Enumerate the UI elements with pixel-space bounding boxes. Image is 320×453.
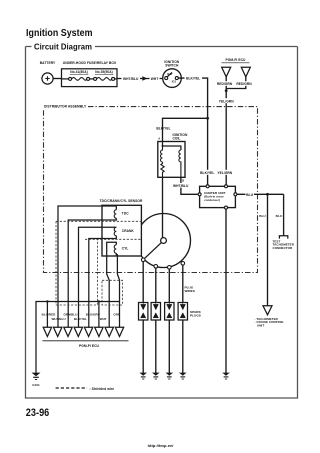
svg-text:23-96: 23-96 xyxy=(26,407,50,419)
TDC sensor coil xyxy=(114,210,129,218)
svg-text:http://tmp.ee/: http://tmp.ee/ xyxy=(148,443,175,448)
section title Circuit Diagram with bracket xyxy=(26,43,298,52)
svg-text:YEL/GRN: YEL/GRN xyxy=(219,99,234,103)
legend shielded wire xyxy=(56,387,115,391)
spark plug wire 4 xyxy=(182,265,184,373)
wire WHT/BLU coil to igniter xyxy=(173,177,200,194)
coil secondary winding xyxy=(179,150,181,177)
ECU wire color labels row 1 xyxy=(42,313,121,317)
rotor xyxy=(145,243,162,259)
svg-text:BLU/YEL: BLU/YEL xyxy=(74,317,87,321)
svg-text:SWITCH: SWITCH xyxy=(165,63,179,67)
svg-text:BLU: BLU xyxy=(259,214,266,218)
svg-text:WIRES: WIRES xyxy=(185,289,195,293)
svg-text:Ignition System: Ignition System xyxy=(26,28,93,39)
CRANK sensor coil xyxy=(114,227,134,235)
ignition switch xyxy=(163,60,182,87)
ECU wire color labels row 2 xyxy=(52,317,107,321)
under-hood fuse/relay box xyxy=(62,61,118,86)
svg-text:YEL/GRN: YEL/GRN xyxy=(217,171,232,175)
svg-text:WHT: WHT xyxy=(151,77,159,81)
svg-text:BLK/YEL: BLK/YEL xyxy=(156,127,170,131)
wire battery to fuse box xyxy=(53,78,61,80)
sensor wire TDC-b xyxy=(68,218,116,327)
shield dashed box B xyxy=(102,280,123,305)
PGM-FI ECU bottom connector row: 8 triangles xyxy=(43,327,129,348)
TDC/CRANK/CYL sensor box xyxy=(100,199,143,256)
svg-text:BLK/YEL: BLK/YEL xyxy=(186,77,200,81)
plug wires label xyxy=(185,286,195,293)
fuse No.41 (80A) xyxy=(62,70,90,80)
svg-text:PGM-FI ECU: PGM-FI ECU xyxy=(226,58,246,62)
svg-text:Circuit Diagram: Circuit Diagram xyxy=(34,43,92,52)
svg-text:WHT/BLU: WHT/BLU xyxy=(123,77,139,81)
watermark xyxy=(148,443,175,448)
svg-text:BATTERY: BATTERY xyxy=(40,61,56,65)
svg-text:BLU: BLU xyxy=(246,193,253,197)
svg-text:GRN: GRN xyxy=(113,313,120,317)
distributor assembly dashed box xyxy=(44,105,258,273)
svg-text:WHT/BLU: WHT/BLU xyxy=(52,317,66,321)
svg-text:B: B xyxy=(182,178,184,182)
engine ground under plug 4 xyxy=(179,373,187,379)
shield dash row 1 xyxy=(56,220,141,222)
coil primary winding xyxy=(161,146,163,162)
svg-text:RED/GRN: RED/GRN xyxy=(217,82,233,86)
high tension wire coil to distributor xyxy=(162,177,164,237)
engine ground under plug 1 xyxy=(139,373,147,379)
spark plug 4 xyxy=(178,303,187,321)
svg-text:RED/GRN: RED/GRN xyxy=(236,82,252,86)
svg-text:BLU: BLU xyxy=(276,214,283,218)
svg-text:WHT/BLU: WHT/BLU xyxy=(173,184,189,188)
svg-text:ORN/BLU: ORN/BLU xyxy=(63,313,77,317)
PGM-FI ECU top connectors xyxy=(216,58,254,92)
svg-text:BAT: BAT xyxy=(167,72,173,76)
svg-text:CRANK: CRANK xyxy=(122,229,135,233)
wire WHT/BLU with inline connector arrow and WHT label xyxy=(117,76,163,81)
svg-text:A: A xyxy=(158,137,160,141)
svg-text:condenser): condenser) xyxy=(204,198,220,202)
fuse No.39 (50A) xyxy=(90,70,117,80)
wire BLU igniter output xyxy=(237,192,284,197)
sensor wire CYL-a xyxy=(107,242,117,327)
sensor wire CRANK-b xyxy=(89,236,117,328)
battery xyxy=(40,61,56,84)
svg-text:BLU/RED: BLU/RED xyxy=(42,313,56,317)
svg-text:UNIT: UNIT xyxy=(257,323,264,327)
svg-text:BLU/GRN: BLU/GRN xyxy=(86,313,100,317)
frame border xyxy=(26,47,298,399)
engine ground under plug 3 xyxy=(166,373,174,379)
wire BLU to tachometer/cruise xyxy=(259,194,267,305)
svg-text:WHT: WHT xyxy=(100,317,107,321)
svg-text:No.41(80A): No.41(80A) xyxy=(70,70,87,74)
svg-text:TDC/CRANK/CYL SENSOR: TDC/CRANK/CYL SENSOR xyxy=(100,199,143,203)
shield ground bus xyxy=(36,302,120,374)
wire YEL/GRN ECU to igniter xyxy=(218,91,236,187)
svg-text:CYL: CYL xyxy=(122,246,129,250)
engine ground under plug 2 xyxy=(152,373,160,379)
distributor xyxy=(137,214,191,270)
spark plug 2 xyxy=(151,303,160,321)
page title xyxy=(26,28,93,39)
cap contacts xyxy=(141,258,145,262)
svg-text:CONNECTOR: CONNECTOR xyxy=(273,246,294,250)
svg-text:No.39(50A): No.39(50A) xyxy=(95,70,112,74)
ECU wire 1 from bus xyxy=(46,300,48,327)
svg-text:PGM-FI ECU: PGM-FI ECU xyxy=(79,344,99,348)
spark plug 1 xyxy=(139,303,148,321)
svg-text:PLUGS: PLUGS xyxy=(190,313,201,317)
tachometer / cruise control unit connector xyxy=(255,306,285,328)
spark plugs label xyxy=(190,310,202,317)
sensor wire TDC-a xyxy=(58,206,116,327)
svg-text:BLK/YEL: BLK/YEL xyxy=(200,171,214,175)
ignition coil xyxy=(156,127,188,178)
spark plug wire 1 xyxy=(142,262,144,374)
spark plug wire 3 xyxy=(168,269,170,373)
wire BLU to test tachometer connector xyxy=(276,194,284,236)
igniter ground wire xyxy=(225,209,227,373)
shield dash row 2 xyxy=(85,238,141,240)
spark plug 3 xyxy=(165,303,174,321)
page number xyxy=(26,407,50,419)
svg-text:TDC: TDC xyxy=(122,211,129,215)
sensor wire CRANK-a xyxy=(79,227,117,327)
test tachometer connector xyxy=(273,236,295,250)
spark plug wire 2 xyxy=(155,268,157,373)
svg-text:UNDER-HOOD FUSE/RELAY BOX: UNDER-HOOD FUSE/RELAY BOX xyxy=(63,61,117,65)
wire BLK/YEL from switch down to igniter, branch to coil xyxy=(163,76,210,187)
shield dashed box A xyxy=(56,221,98,305)
svg-text:: Shielded wire: : Shielded wire xyxy=(90,387,115,391)
igniter unit xyxy=(198,170,237,209)
ground G101 xyxy=(32,373,41,387)
svg-text:DISTRIBUTOR ASSEMBLY: DISTRIBUTOR ASSEMBLY xyxy=(44,105,87,109)
sensor wire CYL-b xyxy=(116,253,119,327)
ECU wire 6 shield drain from bus xyxy=(98,300,100,327)
svg-text:COIL: COIL xyxy=(173,137,181,141)
resistor in coil tower xyxy=(161,162,164,177)
engine ground under igniter xyxy=(222,373,230,379)
svg-text:G101: G101 xyxy=(32,383,40,387)
CYL sensor coil xyxy=(114,245,128,253)
svg-text:IG1: IG1 xyxy=(172,80,177,84)
